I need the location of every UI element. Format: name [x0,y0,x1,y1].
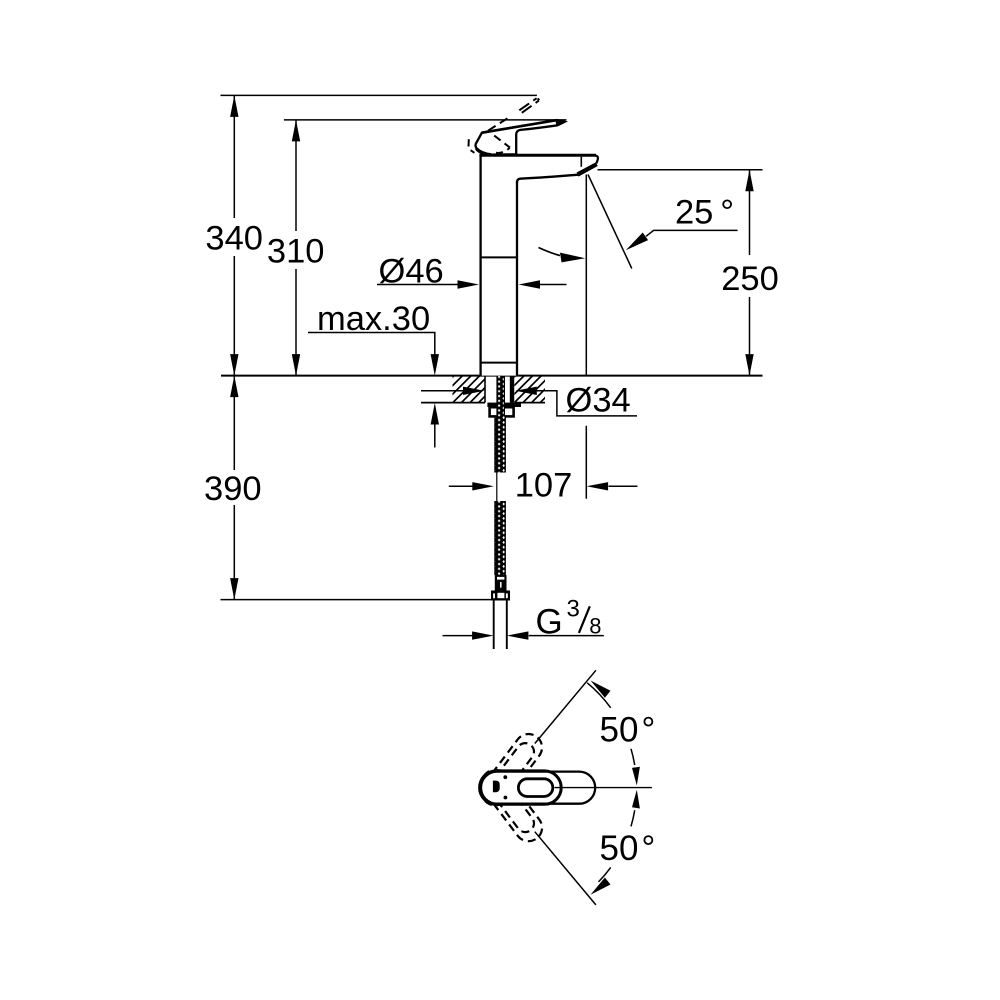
spout tip right corner [596,156,598,164]
mounting nut [490,407,514,416]
deck (counter top) line [221,375,763,377]
50° ray upper [535,670,596,743]
faucet pillar left edge [479,155,481,376]
cap top line [479,154,596,157]
handle bottom-left thick arc [476,149,491,155]
dashed raised handle: beak top [519,98,536,110]
label 25° with leader arrow [626,194,738,251]
handle top edge (thick) [482,120,557,133]
threaded shank with braid texture [495,372,505,473]
extension line: top of raised handle (340 ref) [221,94,537,96]
plan handle pill [481,772,595,804]
50° ray lower [535,832,596,905]
dashed swung handle upper (50°) [476,729,547,811]
plan body dot top [503,775,507,779]
deck hatching left [427,376,506,403]
extension line: hose end (390 ref) [221,599,492,601]
spout underside [517,175,578,183]
plan handle inner stadium [518,779,552,797]
angle arc upper [587,681,640,786]
vertical extension line from spout tip [585,175,587,499]
dashed raised handle: left outline [468,139,470,146]
G3/8 connection pipe [494,601,507,650]
extension line: top of solid handle (310 ref) [284,119,567,121]
dashed raised handle: beak tip [538,98,540,100]
handle tip [556,120,565,126]
hose hex nut [491,591,510,601]
dashed raised handle: front face diagonal [494,136,510,148]
plan body dot bottom [504,796,508,800]
dashed swung handle lower (50°) [476,764,547,846]
label G 3/8 with arrows [443,596,604,642]
svg-text:310: 310 [267,233,325,271]
mounting hole right edge (thick) [510,376,514,403]
svg-text:250: 250 [721,260,779,298]
plan body mask [480,771,562,804]
svg-text:50 °: 50 ° [600,829,656,868]
flow direction curved arrow [539,248,586,263]
dashed raised handle: beak bottom [522,101,539,113]
label Ø34 with leader [421,382,637,420]
hose collar [495,575,507,591]
plan body stadium [480,771,562,804]
spout cap joint line [580,157,582,167]
mounting hole left edge [484,376,486,403]
dimension 390 line [230,376,238,600]
deck underside line [421,402,545,404]
label Ø46 with arrows [377,253,567,291]
faucet body white fill [481,155,598,375]
body base line [481,362,517,364]
25 degree spout ray [588,175,632,269]
dimension 250 line [721,170,779,376]
body joint line [481,256,517,258]
dimension 310 line [292,120,300,376]
svg-text:25 °: 25 ° [675,194,734,232]
aerator outlet (black slab) [577,162,598,176]
svg-text:50 °: 50 ° [600,710,656,749]
svg-text:340: 340 [205,220,263,258]
label max.30 with leader [308,300,439,448]
flexible hose braid lower segment [495,501,505,575]
solid handle lever [475,120,564,155]
deck hatching right [489,376,568,403]
dimension 340 line [230,95,238,375]
faucet pillar right edge [516,181,518,376]
washer flange [487,403,521,407]
angle arc lower [591,790,640,895]
dimension 107 [449,467,638,505]
svg-text:Ø34: Ø34 [566,382,631,420]
dashed raised handle: bottom arc [496,148,510,153]
plan body slot mark [493,781,500,793]
extension line: spout outlet height (250 ref) [598,169,763,171]
dashed raised handle: underside line [488,116,512,131]
hose centerline through 107 dim gap [496,473,498,502]
svg-text:3: 3 [567,596,580,623]
svg-text:107: 107 [515,467,573,505]
plan centerline [555,787,652,789]
svg-text:390: 390 [204,470,262,508]
